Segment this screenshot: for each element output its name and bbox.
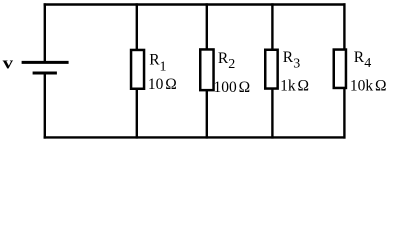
svg-text:3: 3 [293,56,300,71]
wire R4 branch lower (right rail) [343,89,345,139]
label V [3,53,14,72]
svg-text:1k Ω: 1k Ω [280,78,309,95]
svg-text:R: R [283,49,294,66]
svg-text:R: R [354,49,365,66]
resistor R2 [200,49,213,90]
svg-text:R: R [218,50,229,67]
value 10kΩ [350,77,387,94]
svg-text:1: 1 [160,60,167,75]
battery V long plate [22,61,69,64]
wire R1 branch lower [136,89,138,139]
wire left upper segment [44,3,46,61]
svg-text:2: 2 [228,57,235,72]
resistor R1 [131,50,144,89]
value 1kΩ [280,78,309,95]
wire R2 branch lower [206,91,208,139]
wire R4 branch upper (right rail) [343,3,345,50]
wire R3 branch lower [271,89,273,139]
resistor R4 [334,50,346,88]
label R2 [218,50,235,72]
label R3 [283,49,301,71]
svg-text:4: 4 [364,56,371,71]
resistor R3 [265,50,277,89]
value 10Ω [148,76,177,93]
wire R2 branch upper [206,3,208,50]
svg-text:10 Ω: 10 Ω [148,76,177,93]
value 100Ω [214,79,251,96]
wire R1 branch upper [136,3,138,50]
label R1 [149,51,166,74]
wire top rail [44,3,346,5]
battery V short plate [33,72,57,75]
label R4 [354,49,372,71]
svg-text:v: v [3,53,14,72]
svg-text:100 Ω: 100 Ω [214,79,251,96]
wire left lower segment [44,74,46,139]
svg-text:10k Ω: 10k Ω [350,77,387,94]
wire bottom rail [44,136,346,138]
wire R3 branch upper [271,3,273,50]
